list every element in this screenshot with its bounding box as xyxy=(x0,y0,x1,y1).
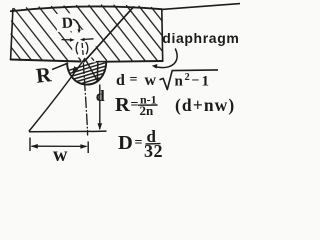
formula line 1: d = w sqrt(n^2-1) xyxy=(116,72,209,90)
svg-text:w: w xyxy=(145,72,157,89)
svg-text:d: d xyxy=(116,72,125,89)
incident ray xyxy=(80,7,134,66)
D hook arrow xyxy=(73,19,79,30)
svg-text:d: d xyxy=(96,88,105,105)
top edge extension line xyxy=(162,4,240,10)
hatch clearing for label D xyxy=(56,13,76,32)
svg-text:diaphragm: diaphragm xyxy=(162,30,239,46)
refracted ray arrowhead xyxy=(72,66,79,73)
radical sign xyxy=(160,70,219,90)
svg-text:=: = xyxy=(135,136,143,151)
svg-text:(d+nw): (d+nw) xyxy=(175,95,235,115)
svg-text:=: = xyxy=(130,73,138,88)
R pointer xyxy=(52,63,68,70)
refracted ray xyxy=(29,59,85,131)
fraction bar d/32 xyxy=(146,143,161,145)
svg-text:D: D xyxy=(61,14,73,32)
optical axis dash-dot xyxy=(83,64,87,136)
svg-text:1: 1 xyxy=(202,74,210,90)
hatch clearing around aperture xyxy=(72,30,97,58)
dimension d line xyxy=(99,85,101,130)
svg-text:n: n xyxy=(175,74,184,90)
svg-text:=: = xyxy=(131,98,139,113)
formula line 2: R = (n-1)/(2n) (d+nw) xyxy=(115,93,235,119)
vertical ray inside lens xyxy=(96,63,99,83)
aperture width arrows xyxy=(62,39,94,40)
aperture hole right paren xyxy=(86,42,88,54)
aperture hole left paren xyxy=(76,42,78,54)
lens hatching xyxy=(67,59,107,88)
svg-text:w: w xyxy=(53,144,68,166)
lens drop xyxy=(67,62,106,84)
svg-text:2: 2 xyxy=(185,72,190,83)
internal ray to lens surface xyxy=(86,60,98,81)
block hatching xyxy=(11,5,162,60)
diaphragm block outline xyxy=(11,6,163,61)
dimension w arrow xyxy=(29,138,31,152)
svg-text:−: − xyxy=(192,74,200,89)
svg-text:R: R xyxy=(115,94,130,116)
svg-text:D: D xyxy=(118,132,133,154)
diaphragm pointer arrow xyxy=(154,49,177,68)
fraction bar n-1/2n xyxy=(138,104,158,106)
aperture axis dashes xyxy=(82,43,83,55)
formula line 3: D = d/32 xyxy=(118,127,163,161)
d bottom tick xyxy=(91,130,107,132)
focal triangle base xyxy=(29,130,91,132)
